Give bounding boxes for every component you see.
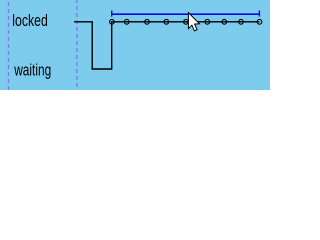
measure tick right [258, 11, 260, 17]
node circle 3 [145, 19, 150, 24]
measure line [112, 13, 260, 15]
dashed lifeline left [8, 0, 10, 90]
node circle 7 [222, 19, 227, 24]
svg-text:waiting: waiting [13, 62, 51, 80]
svg-text:locked: locked [12, 12, 48, 30]
node circle 2 [124, 19, 129, 24]
node circle 1 [110, 19, 115, 24]
node circle 8 [239, 19, 244, 24]
waveform state line [74, 22, 260, 69]
node circle 6 [205, 19, 210, 24]
node circle 5 [184, 19, 189, 24]
node circle 9 [257, 19, 262, 24]
dashed lifeline right [76, 0, 78, 90]
mouse cursor [188, 13, 199, 31]
node circle 4 [164, 19, 169, 24]
measure tick left [111, 11, 113, 17]
